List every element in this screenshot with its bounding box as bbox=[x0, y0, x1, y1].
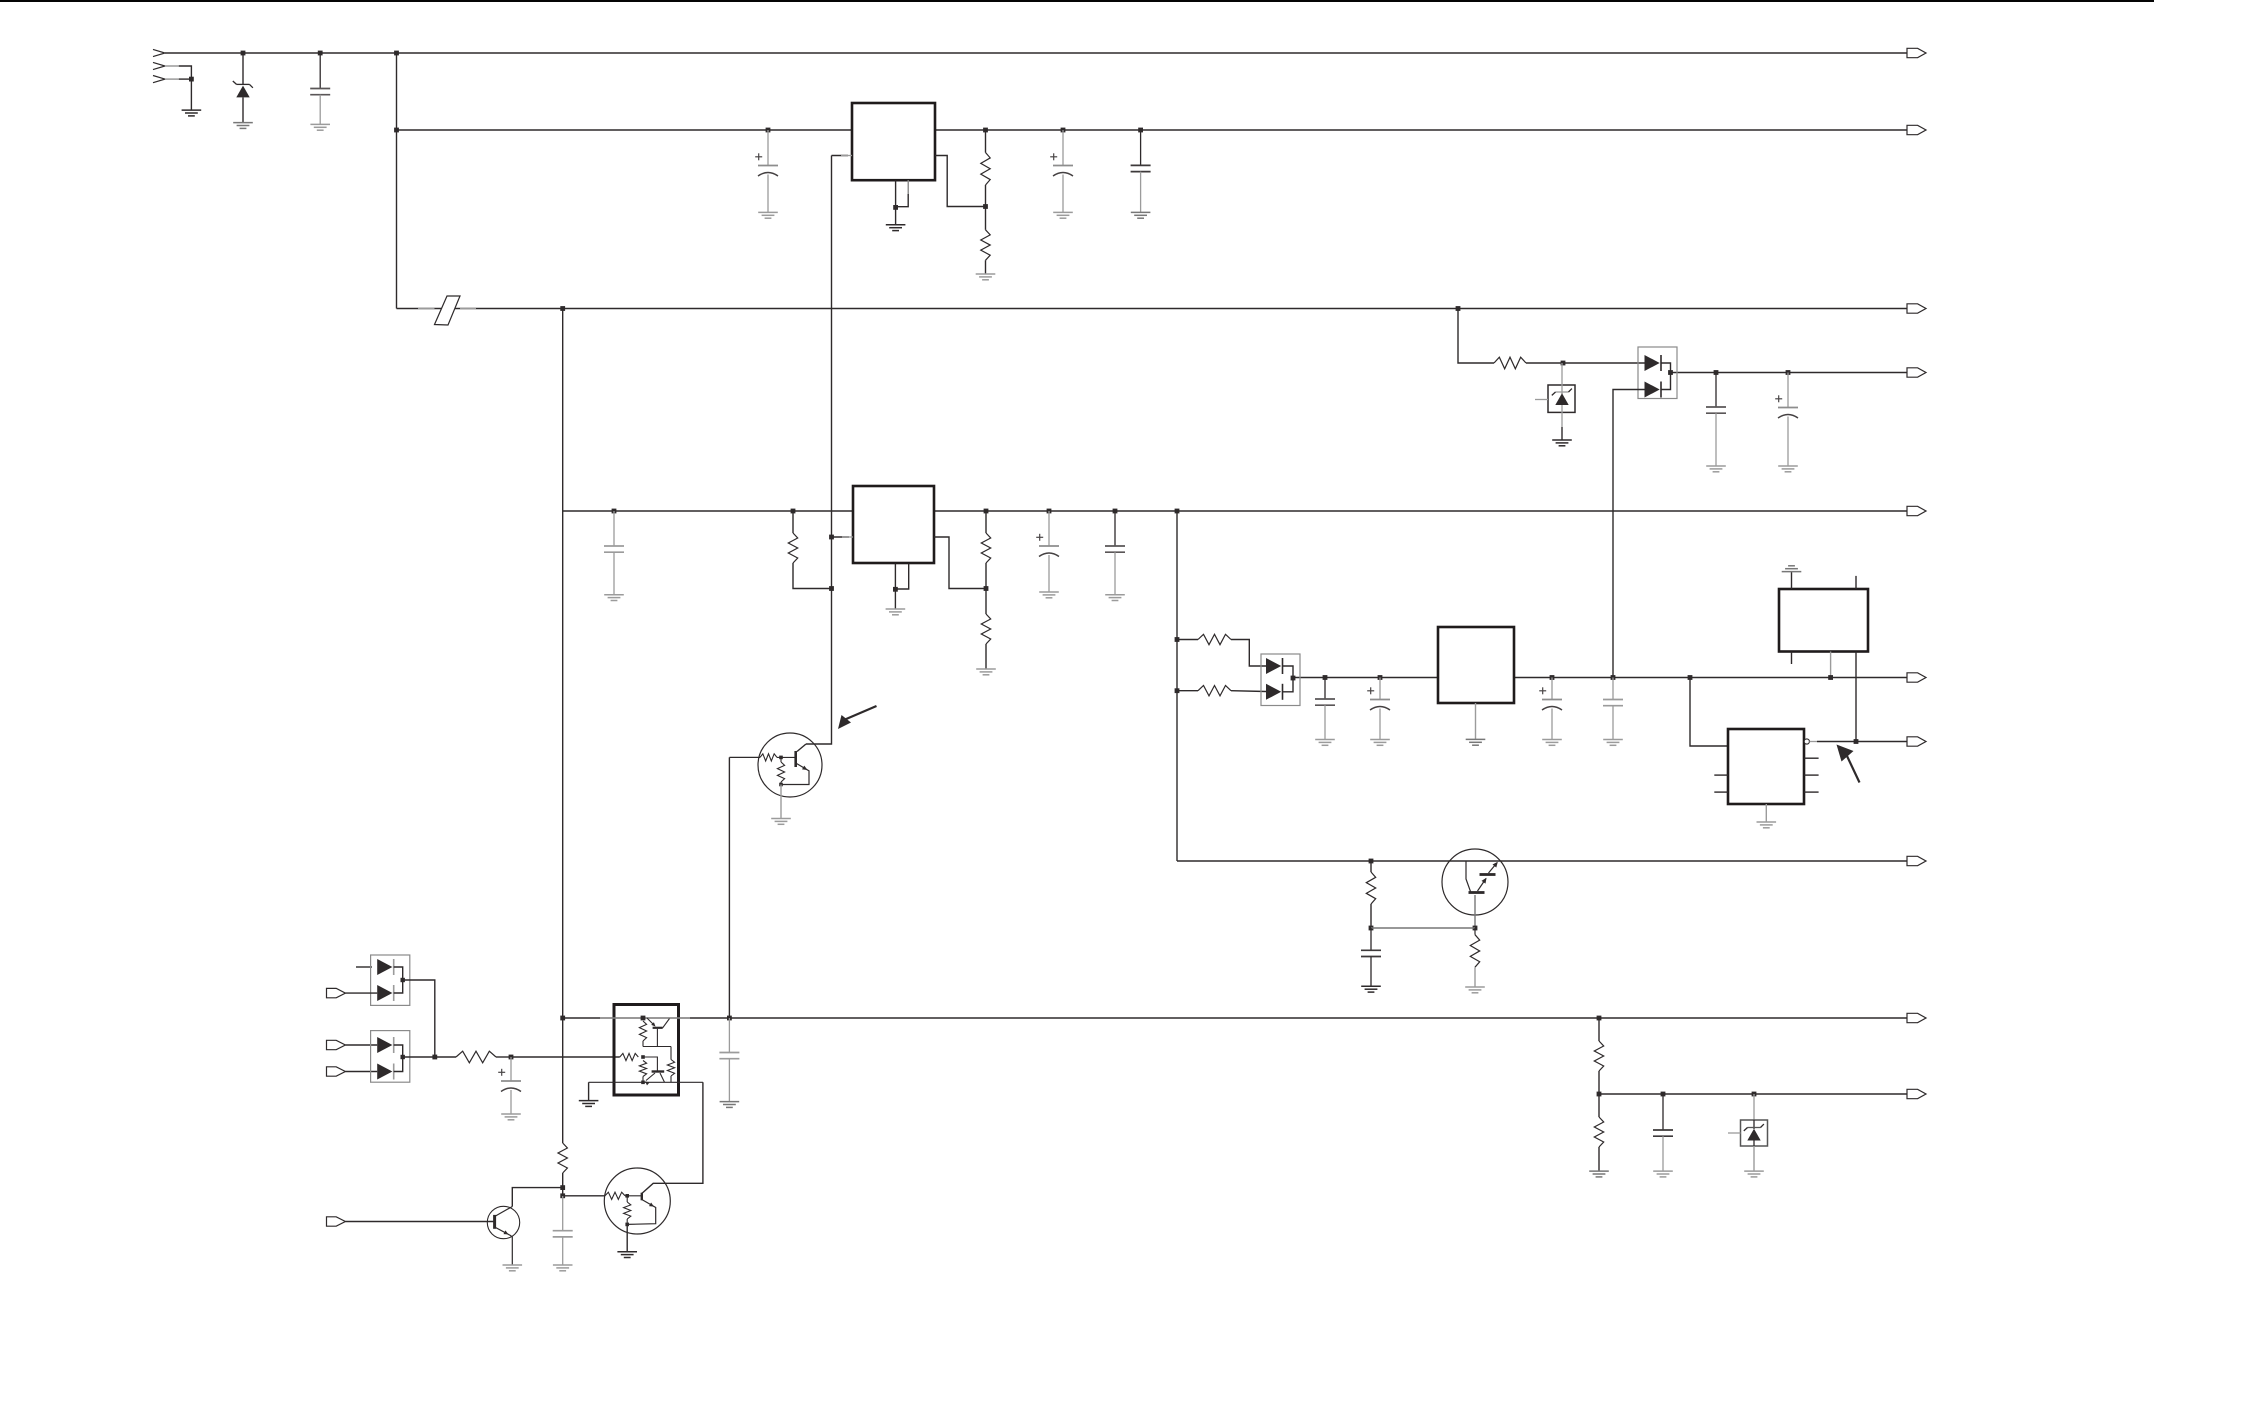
wire U4 top-right pin stub bbox=[1855, 576, 1857, 589]
junction rail3 / R8 branch bbox=[1456, 306, 1461, 311]
diode D8 bbox=[377, 1037, 394, 1053]
ground bbox=[579, 1101, 599, 1107]
resistor R6 (Q1 internal base) bbox=[760, 754, 777, 761]
junction Q1 emitter node bbox=[779, 783, 783, 787]
Q5 collector diagonal bbox=[663, 1019, 670, 1028]
voltage regulator U3 bbox=[1438, 627, 1514, 703]
ground bbox=[1778, 466, 1798, 472]
boxed zener Z2 bbox=[1548, 385, 1575, 412]
wire D3 anode feed bbox=[1613, 390, 1645, 678]
junction Q2 base node bbox=[1473, 926, 1478, 931]
junction rail5 / C7 bbox=[1113, 509, 1118, 514]
wire U6 to Q4 collector bbox=[642, 1082, 703, 1193]
wire U2 gnd pin A bbox=[894, 564, 896, 590]
capacitor C14 bbox=[1361, 928, 1381, 986]
junction D6/D7 output bbox=[401, 978, 405, 982]
capacitor C13 bbox=[1603, 678, 1623, 740]
output connector OUT5 bbox=[1907, 506, 1926, 515]
resistor R22 bbox=[1594, 1041, 1603, 1071]
Q5 emitter with arrow bbox=[647, 1018, 656, 1027]
ground bbox=[1466, 739, 1486, 745]
wire U2 gnd node to ground bbox=[894, 589, 896, 609]
junction rail6 / C12 bbox=[1550, 675, 1555, 680]
wire J1 pin3 to ground net bbox=[179, 78, 192, 80]
wire R2 to ground bbox=[985, 260, 987, 274]
resistor R16 (U6 internal) bbox=[639, 1061, 646, 1077]
dual diode D2/D3 package bbox=[1638, 347, 1677, 399]
wire Z2 lower lead bbox=[1561, 405, 1563, 427]
IC U5 (reset generator) bbox=[1728, 729, 1804, 804]
resistor R2 bbox=[981, 230, 990, 260]
resistor R15 (U6 internal) bbox=[620, 1053, 639, 1060]
Q1 emitter with arrow bbox=[781, 763, 809, 785]
junction rail9 / R22 bbox=[1597, 1016, 1602, 1021]
Q5 base bar (U6 upper transistor) bbox=[653, 1027, 663, 1029]
wire R4 bottom lead bbox=[985, 563, 987, 589]
wire R16 lower lead bbox=[642, 1077, 644, 1083]
resistor R21 bbox=[558, 1143, 567, 1173]
wire R22 top lead bbox=[1598, 1018, 1600, 1041]
dual diode D8/D9 package bbox=[371, 1031, 410, 1083]
wire R23 to ground bbox=[1598, 1147, 1600, 1171]
dual diode D4/D5 package bbox=[1261, 654, 1300, 706]
wire R7 lower lead bbox=[780, 782, 782, 785]
ground bbox=[1131, 212, 1151, 218]
junction rail2 start bbox=[394, 128, 399, 133]
wire diode output to R13 bbox=[403, 1056, 456, 1058]
wire R20 bottom lead bbox=[626, 1219, 628, 1224]
wire R7 lead bbox=[780, 757, 782, 762]
capacitor C9 (polarized) bbox=[1775, 373, 1798, 466]
junction rail2 / C3 bbox=[1061, 128, 1066, 133]
transistor Q4 (digital transistor) bbox=[604, 1168, 670, 1234]
wire Z3 inner lead bbox=[1753, 1120, 1755, 1129]
resistor R9 bbox=[1198, 634, 1231, 644]
wire D6/D7 cathode join bbox=[394, 967, 403, 993]
wire R2 top lead bbox=[985, 207, 987, 230]
ground bbox=[1315, 740, 1335, 746]
wire VIN to D1 cathode bbox=[242, 53, 244, 84]
wire U2 adj pin bbox=[832, 536, 850, 538]
wire J4 to D9 bbox=[345, 1071, 377, 1073]
junction rail3 / main vertical bbox=[560, 306, 565, 311]
capacitor C15 (polarized) bbox=[498, 1057, 521, 1114]
wire J1 pin2 gray lead bbox=[165, 65, 179, 67]
junction rail5 / R4 bbox=[984, 509, 989, 514]
Q4 base bar bbox=[641, 1193, 643, 1201]
wire R1 top lead bbox=[985, 130, 987, 153]
input connector J2 bbox=[327, 988, 346, 997]
junction D8/D9 output bbox=[401, 1055, 405, 1059]
wire Q1 base feeder bbox=[728, 757, 730, 1018]
Q2 upper base bar bbox=[1480, 873, 1496, 876]
junction rail2 / R1 bbox=[983, 128, 988, 133]
wire U1 gnd node to ground bbox=[895, 207, 897, 224]
junction rail10 / C18 bbox=[1661, 1092, 1666, 1097]
resistor R1 bbox=[981, 153, 990, 186]
capacitor C11 (polarized) bbox=[1367, 678, 1390, 740]
junction U6 base node bbox=[641, 1055, 645, 1059]
ground bbox=[1105, 595, 1125, 601]
ground bbox=[886, 225, 906, 231]
junction rail6 / U5 input bbox=[1688, 675, 1693, 680]
junction U2 ground node bbox=[893, 587, 898, 592]
Q4 emitter with arrow bbox=[627, 1200, 656, 1225]
zener diode D1 bbox=[233, 81, 253, 97]
output connector OUT4 bbox=[1907, 368, 1926, 377]
junction with upper diode branch bbox=[432, 1055, 437, 1060]
ground bbox=[976, 669, 996, 675]
ground bbox=[1542, 740, 1562, 746]
ground bbox=[1744, 1171, 1764, 1177]
ground bbox=[617, 1252, 637, 1258]
ground bbox=[1757, 822, 1777, 828]
wire U1 gnd pin B gray nub bbox=[907, 180, 909, 194]
Q2 outer emitter with arrow bbox=[1489, 862, 1498, 873]
junction U6 supply bbox=[641, 1016, 646, 1021]
wire R14 lower lead bbox=[642, 1041, 644, 1047]
junction U6 emitter node bbox=[641, 1081, 645, 1085]
wire U1 adj pin bbox=[832, 155, 849, 157]
wire U6 left ground bbox=[588, 1082, 590, 1100]
wire U5 right pin stub 2 bbox=[1804, 774, 1819, 776]
wire R19 to base bbox=[625, 1195, 642, 1197]
wire J1 pin2 to ground net bbox=[179, 66, 192, 79]
output connector OUT3 bbox=[1907, 304, 1926, 313]
wire J2 to D7 bbox=[345, 992, 377, 994]
wire U1 gnd pin A bbox=[895, 180, 897, 207]
wire bus rail 3 (switched supply) bbox=[397, 308, 1908, 310]
ground bbox=[771, 819, 791, 825]
resistor R8 bbox=[1494, 357, 1526, 369]
wire bus rail 5 (regulator U2 rail) bbox=[563, 510, 1907, 512]
capacitor C4 bbox=[1131, 130, 1151, 212]
Q6 collector diagonal bbox=[660, 1073, 665, 1082]
resistor R20 (Q4 internal) bbox=[624, 1202, 631, 1219]
ground bbox=[886, 609, 906, 615]
ground bbox=[1603, 740, 1623, 746]
capacitor C2 (polarized) bbox=[755, 130, 778, 212]
diode D7 bbox=[377, 985, 394, 1001]
wire D1 anode to ground bbox=[242, 97, 244, 122]
junction U4 pin / rail7 bbox=[1854, 739, 1859, 744]
wire Z3 lower inner lead bbox=[1753, 1141, 1755, 1147]
junction feeder / R10 bbox=[1175, 688, 1180, 693]
IC U4 (supervisor) bbox=[1779, 589, 1868, 652]
wire Z2 feed bbox=[1561, 363, 1563, 394]
zener diode Z3 bbox=[1744, 1124, 1764, 1140]
ground bbox=[1370, 740, 1390, 746]
voltage regulator U1 bbox=[852, 103, 935, 180]
wire Q1 emitter to ground bbox=[780, 785, 782, 819]
wire U1 gnd pin B bbox=[896, 180, 909, 207]
wire U5 right pin stub 3 bbox=[1804, 791, 1819, 793]
fuse F1 (inline symbol) bbox=[435, 296, 461, 325]
ground bbox=[758, 212, 778, 218]
wire R13 to node bbox=[496, 1056, 511, 1058]
wire base node link bbox=[1371, 927, 1475, 929]
wire vertical net at x=563 lower part bbox=[562, 1173, 564, 1196]
wire bus rail 6 (regulator U3 rail) bbox=[1293, 677, 1907, 679]
junction VIN / D1 bbox=[241, 51, 246, 56]
wire rail5 branch down to rail 8 bbox=[1176, 511, 1178, 861]
wire diode cathodes join 2 bbox=[1283, 666, 1294, 692]
wire Z2 left stub bbox=[1535, 399, 1548, 401]
ground bbox=[503, 1265, 523, 1271]
output connector OUT1 bbox=[1907, 48, 1926, 57]
diode D2 bbox=[1645, 355, 1662, 371]
input connector J5 bbox=[327, 1217, 346, 1226]
wire U3 gnd pin bbox=[1475, 703, 1477, 739]
wire bus rail 10 bbox=[1599, 1093, 1907, 1095]
output connector OUT6 bbox=[1907, 673, 1926, 682]
wire R4 top lead bbox=[985, 511, 987, 533]
transistor Q3 bbox=[487, 1206, 519, 1238]
junction rail2 / C4 bbox=[1138, 128, 1143, 133]
wire U6 emitter rail bbox=[589, 1081, 703, 1083]
ground bbox=[553, 1265, 573, 1271]
wire main vertical net at x=563 bbox=[562, 309, 564, 1144]
junction vertical / Q3 collector link bbox=[560, 1185, 565, 1190]
wire node to D2 anode bbox=[1563, 362, 1645, 364]
wire Z3 to ground bbox=[1753, 1146, 1755, 1171]
junction rail10 / Z3 bbox=[1752, 1092, 1757, 1097]
wire Q4 emitter to ground bbox=[626, 1224, 628, 1251]
wire bus rail 2 (regulator U1 input) bbox=[397, 129, 1908, 131]
capacitor C3 (polarized) bbox=[1050, 130, 1073, 212]
boxed zener Z3 bbox=[1741, 1120, 1768, 1146]
wire feeder from VIN to rail 3 bbox=[396, 53, 398, 309]
dual diode D6/D7 package bbox=[371, 955, 410, 1005]
output connector OUT10 bbox=[1907, 1089, 1926, 1098]
Q3 base bar bbox=[493, 1215, 496, 1229]
junction VIN feeder bbox=[394, 51, 399, 56]
junction Q4 internal base bbox=[625, 1194, 629, 1198]
wire bus rail 8 bbox=[1177, 860, 1907, 862]
wire R12 to ground bbox=[1474, 967, 1476, 987]
junction Q4 emitter node bbox=[625, 1223, 629, 1227]
resistor R11 bbox=[1366, 872, 1375, 904]
junction R8 / D2 / Z2 bbox=[1561, 361, 1566, 366]
wire R12 top lead bbox=[1474, 928, 1476, 935]
ground bbox=[1706, 466, 1726, 472]
junction rail9 / Q1 feeder / C17 bbox=[727, 1016, 732, 1021]
diode D6 bbox=[377, 959, 394, 975]
junction U1 ground node bbox=[893, 205, 898, 210]
ground bbox=[1552, 440, 1572, 446]
wire J1 pin3 gray lead bbox=[165, 78, 179, 80]
transistor Q2 (dual transistor) bbox=[1442, 849, 1508, 915]
wire U6 internal node row bbox=[643, 1046, 671, 1048]
capacitor C17 bbox=[719, 1018, 739, 1101]
border bar bbox=[0, 0, 2154, 2]
U5 inverting output bubble bbox=[1804, 739, 1809, 744]
resistor R7 (Q1 internal) bbox=[777, 762, 784, 782]
junction R4/R5 divider bbox=[984, 586, 989, 591]
wire R1 bottom lead bbox=[985, 185, 987, 207]
junction rail8 / R11 bbox=[1369, 859, 1374, 864]
ground bbox=[976, 274, 996, 280]
resistor R4 bbox=[981, 533, 990, 563]
wire bus rail 7 (IC U5 output) bbox=[1817, 741, 1907, 743]
Q3 emitter with arrow bbox=[495, 1227, 513, 1265]
resistor R10 bbox=[1198, 686, 1231, 696]
junction rail5 / C5 bbox=[612, 509, 617, 514]
wire U5 left pin stub 2 bbox=[1714, 791, 1728, 793]
wire Q2 base lead bbox=[1474, 895, 1476, 928]
Q3 collector diagonal bbox=[495, 1207, 513, 1217]
input connector J1 pin2 bbox=[153, 62, 165, 69]
junction R1/R2 divider bbox=[983, 204, 988, 209]
Q2 lower base bar bbox=[1469, 891, 1485, 894]
wire R3 to adj node bbox=[793, 563, 832, 589]
diode D9 bbox=[377, 1064, 394, 1080]
wire Q1 collector entry bbox=[797, 744, 806, 752]
ground bbox=[501, 1114, 521, 1120]
wire Q3 collector link bbox=[512, 1188, 562, 1207]
junction rail2 / C2 bbox=[766, 128, 771, 133]
wire U2 output to divider bbox=[934, 537, 986, 589]
resistor R17 (U6 internal) bbox=[667, 1060, 674, 1077]
wire Q1 base lead bbox=[729, 756, 760, 758]
diode D3 bbox=[1645, 382, 1662, 398]
Q6 emitter with arrow bbox=[645, 1073, 655, 1085]
optocoupler U6 bbox=[614, 1005, 679, 1096]
wire J3 to D8 bbox=[345, 1044, 377, 1046]
wire U4 top-left pin bbox=[1791, 572, 1793, 589]
wire R5 top lead bbox=[985, 589, 987, 615]
Q2 inner emitter with arrow bbox=[1478, 878, 1487, 891]
wire U5 right pin stub 1 bbox=[1804, 757, 1819, 759]
wire R9 lead bbox=[1177, 639, 1198, 641]
wire Z3 left stub bbox=[1728, 1132, 1741, 1134]
wire R3 top lead bbox=[792, 511, 794, 533]
diode D5 bbox=[1266, 684, 1283, 700]
cursor arrow annotation 1 bbox=[838, 706, 877, 729]
wire node into optocoupler bbox=[511, 1056, 620, 1058]
ground (inverted) bbox=[1782, 566, 1802, 572]
junction vertical / Q4 base link bbox=[560, 1193, 565, 1198]
wire R11 bottom lead bbox=[1370, 904, 1372, 928]
wire R8 feed bbox=[1458, 309, 1494, 364]
wire diode cathodes join bbox=[1661, 363, 1671, 390]
transistor Q1 (digital transistor) bbox=[758, 733, 822, 797]
wire U1 adj feed down to Q1 bbox=[806, 156, 832, 745]
ground bbox=[1039, 592, 1059, 598]
ground bbox=[310, 124, 330, 130]
capacitor C5 bbox=[604, 511, 624, 595]
wire bus rail 4 (diode-OR output) bbox=[1671, 372, 1908, 374]
resistor R5 bbox=[981, 614, 990, 644]
junction U2 adj / feeder bbox=[829, 535, 834, 540]
wire Q2 collector stub bbox=[1466, 861, 1471, 892]
ground bbox=[1589, 1171, 1609, 1177]
capacitor C8 bbox=[1706, 373, 1726, 466]
junction feeder / R9 bbox=[1175, 637, 1180, 642]
junction J1 ground node bbox=[189, 77, 194, 82]
junction Q1 internal bbox=[779, 756, 783, 760]
junction rail5 / R3 bbox=[791, 509, 796, 514]
capacitor C12 (polarized) bbox=[1539, 678, 1562, 740]
ground bbox=[1053, 212, 1073, 218]
zener diode Z2 bbox=[1552, 389, 1572, 405]
wire R22 bottom lead bbox=[1598, 1071, 1600, 1094]
resistor R19 (Q4 base) bbox=[605, 1192, 625, 1199]
ground bbox=[720, 1102, 740, 1108]
wire U1 output to divider bbox=[935, 156, 986, 207]
cursor arrow annotation 2 bbox=[1837, 745, 1860, 783]
wire R23 top lead bbox=[1598, 1094, 1600, 1117]
wire U4 pin to rail6 bbox=[1830, 652, 1832, 678]
wire U2 gnd pin B bbox=[895, 564, 908, 589]
capacitor C16 bbox=[553, 1196, 573, 1265]
junction rail5 / C6 bbox=[1047, 509, 1052, 514]
resistor R23 bbox=[1594, 1117, 1603, 1147]
voltage regulator U2 bbox=[853, 486, 934, 563]
wire R17 top lead bbox=[670, 1047, 672, 1060]
junction diode-OR output bbox=[1668, 370, 1673, 375]
wire gray flank right of fuse bbox=[460, 308, 476, 310]
output connector OUT8 bbox=[1907, 856, 1926, 865]
output connector OUT7 bbox=[1907, 737, 1926, 746]
capacitor C10 bbox=[1315, 678, 1335, 740]
input connector J1 pin1 bbox=[153, 49, 165, 56]
junction R13 / C15 bbox=[509, 1055, 514, 1060]
wire Q4 base feed bbox=[563, 1195, 605, 1197]
junction rail6 / C10 bbox=[1323, 675, 1328, 680]
resistor R13 bbox=[456, 1051, 496, 1063]
output connector OUT9 bbox=[1907, 1013, 1926, 1022]
junction U4 pin / rail6 bbox=[1828, 675, 1833, 680]
resistor R14 (U6 internal) bbox=[639, 1021, 646, 1041]
ground bbox=[1361, 986, 1381, 992]
wire U5 left pin stub 1 bbox=[1714, 774, 1728, 776]
output connector OUT2 bbox=[1907, 125, 1926, 134]
junction rail6 / C11 bbox=[1378, 675, 1383, 680]
junction adj node bbox=[829, 586, 834, 591]
ground bbox=[604, 595, 624, 601]
wire D8/D9 cathode join bbox=[394, 1045, 403, 1072]
wire bus VIN (top rail) bbox=[165, 52, 1907, 54]
wire down to ground bbox=[190, 79, 192, 110]
ground bbox=[1465, 987, 1485, 993]
wire R8 to node bbox=[1526, 362, 1563, 364]
ground bbox=[182, 110, 202, 116]
wire R5 to ground bbox=[985, 644, 987, 669]
junction rail5 / branch down bbox=[1175, 509, 1180, 514]
junction rail4 / C8 bbox=[1714, 370, 1719, 375]
ground bbox=[1653, 1171, 1673, 1177]
input connector J3 bbox=[327, 1040, 346, 1049]
wire R17 lower lead bbox=[670, 1076, 672, 1082]
junction R22 / rail10 bbox=[1597, 1092, 1602, 1097]
wire R20 top lead bbox=[626, 1196, 628, 1202]
wire diode output down bbox=[403, 980, 435, 1057]
ground bbox=[233, 123, 253, 129]
capacitor C18 bbox=[1653, 1094, 1673, 1171]
wire Z2 to ground bbox=[1561, 427, 1563, 440]
input connector J4 bbox=[327, 1067, 346, 1076]
junction R11 / C14 bbox=[1369, 926, 1374, 931]
wire R10 lead bbox=[1177, 690, 1198, 692]
Q5 collector down bbox=[656, 1029, 658, 1047]
capacitor C6 (polarized) bbox=[1036, 511, 1059, 592]
capacitor C1 bbox=[310, 53, 330, 124]
wire R11 top lead bbox=[1370, 861, 1372, 872]
junction rail6 / C13 / D3 feeder bbox=[1611, 675, 1616, 680]
input connector J1 pin3 bbox=[153, 76, 165, 83]
wire U4 bottom-left pin stub bbox=[1791, 652, 1793, 665]
